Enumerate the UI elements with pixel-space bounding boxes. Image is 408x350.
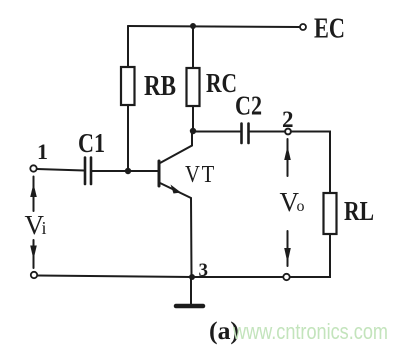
svg-text:1: 1 xyxy=(37,139,48,164)
node base junction xyxy=(125,168,131,174)
svg-text:2: 2 xyxy=(282,107,294,132)
ground xyxy=(176,277,203,306)
svg-text:o: o xyxy=(297,198,305,215)
capacitor C1 xyxy=(85,158,91,185)
transistor VT xyxy=(135,131,192,276)
svg-text:VT: VT xyxy=(185,162,216,188)
node 2 circle xyxy=(285,129,291,135)
resistor RC xyxy=(187,68,200,106)
svg-text:www.cntronics.com: www.cntronics.com xyxy=(232,319,388,344)
wire node 1 to C1 xyxy=(37,169,84,171)
node 3 junction xyxy=(189,274,195,280)
arrow Vo up xyxy=(284,139,291,176)
capacitor C2 xyxy=(242,124,249,144)
wire bottom rail xyxy=(38,276,284,278)
node junction top (RC to rail) xyxy=(190,23,196,29)
svg-text:RB: RB xyxy=(144,70,176,102)
node output bottom circle xyxy=(283,274,289,280)
svg-text:RL: RL xyxy=(344,196,374,226)
wire RC branch top xyxy=(192,26,194,68)
wire collector to C2 xyxy=(193,131,240,133)
arrow Vo down xyxy=(284,231,291,266)
svg-text:C2: C2 xyxy=(235,91,262,121)
svg-text:EC: EC xyxy=(314,14,345,45)
wire node 2 to RL branch xyxy=(292,132,331,194)
svg-text:i: i xyxy=(42,218,47,238)
wire RB branch bottom xyxy=(127,105,129,171)
arrow Vi up xyxy=(30,177,37,212)
arrow Vi down xyxy=(30,240,37,268)
svg-text:3: 3 xyxy=(199,260,209,281)
wire RB branch top xyxy=(127,26,129,67)
resistor RB xyxy=(121,67,135,105)
terminal EC circle xyxy=(300,24,306,30)
node 1 circle xyxy=(30,165,36,171)
svg-text:RC: RC xyxy=(206,68,237,98)
resistor RL xyxy=(324,193,337,234)
wire C2 to node 2 xyxy=(250,131,285,133)
wire RL bottom xyxy=(290,234,330,277)
wire base from C1 xyxy=(92,170,159,172)
wire top rail xyxy=(128,26,299,27)
svg-text:C1: C1 xyxy=(78,128,105,158)
node input bottom circle xyxy=(31,272,37,278)
wire RC branch bottom xyxy=(192,106,194,131)
node collector junction xyxy=(190,128,196,134)
